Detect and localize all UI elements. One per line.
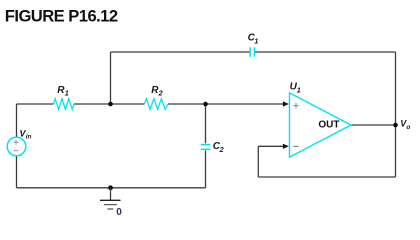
wire: right vertical from top rail down to feedback rail — [395, 52, 397, 177]
resistor R2 — [145, 99, 169, 110]
arrowhead into - input — [283, 144, 289, 149]
node B junction dot (C2 tap) — [203, 102, 208, 107]
ground junction dot — [108, 185, 113, 190]
source Vin — [7, 137, 26, 156]
op-amp minus input symbol — [293, 145, 298, 147]
wire: bottom rail — [17, 187, 206, 189]
capacitor C2 — [201, 145, 211, 150]
wire: main input wire from source to R1 — [17, 103, 54, 105]
wire: feedback left vertical — [257, 146, 259, 177]
op-amp U1 — [290, 93, 352, 157]
svg-text:2: 2 — [219, 145, 225, 154]
wire: top rail right of C1 — [255, 51, 395, 53]
node Vo junction dot — [393, 123, 398, 128]
svg-text:in: in — [26, 134, 32, 141]
wire: R1 to junction to R2 — [74, 103, 145, 105]
source minus sign — [14, 150, 18, 152]
wire: op-amp output to Vo node — [351, 124, 396, 126]
svg-text:OUT: OUT — [318, 120, 339, 131]
wire: top rail left of C1 — [111, 51, 250, 53]
wire: feedback bottom rail — [258, 176, 395, 178]
op-amp plus input symbol — [293, 103, 298, 108]
wire: C2 vertical bottom segment — [205, 150, 207, 187]
source plus sign — [14, 140, 19, 145]
svg-text:1: 1 — [65, 89, 69, 98]
resistor R1 — [54, 99, 75, 110]
svg-text:0: 0 — [116, 207, 122, 218]
wire: source bottom to bottom rail — [16, 156, 18, 188]
wire: C2 vertical top segment — [205, 104, 207, 143]
svg-text:o: o — [406, 124, 410, 131]
svg-text:1: 1 — [254, 36, 258, 45]
node A junction dot (R1/R2/riser) — [108, 102, 113, 107]
wire: riser from node A up to top rail — [110, 52, 112, 104]
svg-text:2: 2 — [158, 89, 164, 98]
arrowhead into + input — [283, 101, 289, 106]
ground — [100, 188, 121, 209]
svg-text:1: 1 — [297, 85, 301, 94]
svg-text:FIGURE P16.12: FIGURE P16.12 — [5, 7, 118, 26]
wire: left vertical from main wire to source top — [16, 104, 18, 137]
capacitor C1 — [250, 47, 254, 57]
wire: feedback into op-amp - input — [258, 145, 284, 147]
wire: R2 to op-amp + input — [168, 103, 284, 105]
